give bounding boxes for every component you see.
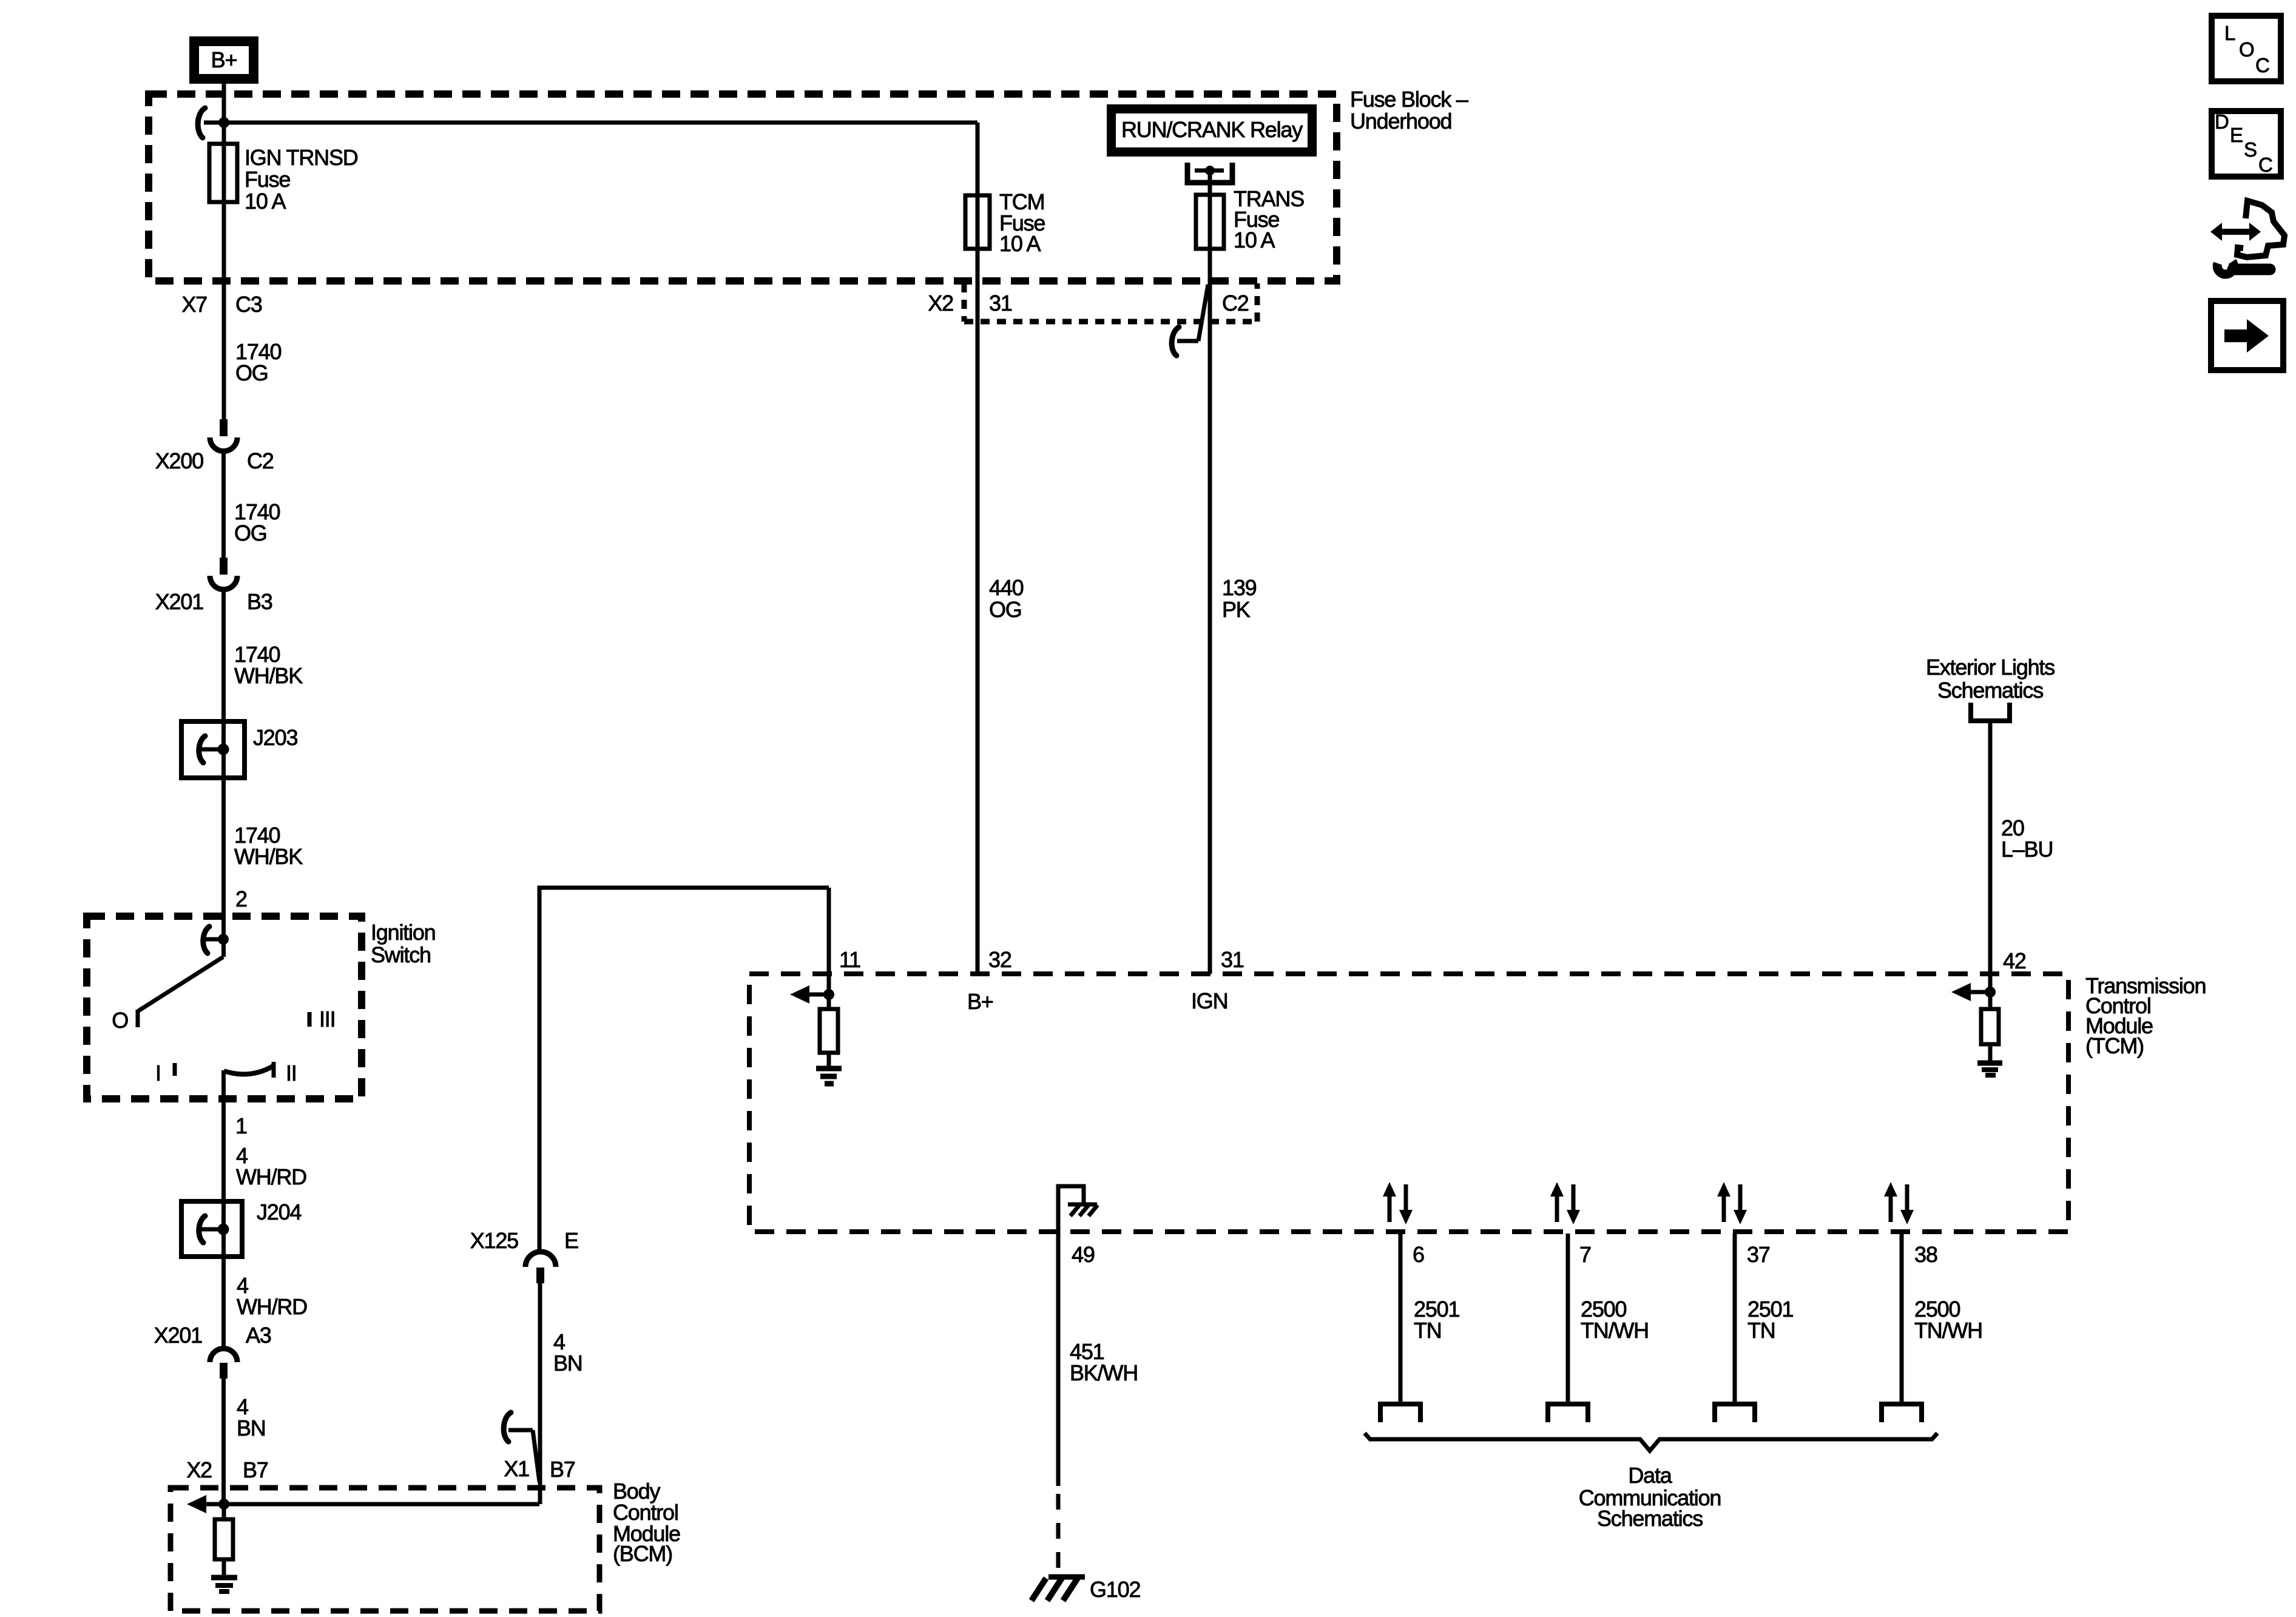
- fuse TCM 10A: [965, 189, 1045, 256]
- svg-text:31: 31: [1221, 947, 1244, 972]
- svg-text:X2: X2: [186, 1457, 212, 1482]
- label X2 B7: [186, 1457, 268, 1482]
- TCM internal load pin 11: [820, 994, 838, 1067]
- fuse TRANS 10A: [1196, 186, 1304, 252]
- svg-text:TN: TN: [1747, 1318, 1775, 1343]
- svg-text:42: 42: [2003, 948, 2026, 973]
- svg-text:X200: X200: [155, 448, 203, 473]
- svg-text:Fuse Block –: Fuse Block –: [1350, 87, 1468, 112]
- junction node at B+ bus: [218, 117, 229, 128]
- svg-text:RUN/CRANK Relay: RUN/CRANK Relay: [1121, 117, 1303, 142]
- junction node pin 42: [1985, 987, 1996, 998]
- svg-text:O: O: [112, 1008, 128, 1033]
- wire 4 BN to BCM: [221, 1379, 226, 1504]
- wire corner to TCM fuse: [976, 123, 980, 195]
- svg-text:C3: C3: [235, 292, 262, 317]
- svg-text:32: 32: [988, 947, 1011, 972]
- svg-text:(BCM): (BCM): [613, 1541, 672, 1566]
- splice J204: [181, 1200, 301, 1257]
- svg-text:49: 49: [1072, 1242, 1095, 1267]
- TCM pin 49 internal ground hook: [1058, 1186, 1098, 1232]
- svg-text:J203: J203: [253, 725, 297, 750]
- svg-text:10 A: 10 A: [1234, 228, 1275, 252]
- svg-text:OG: OG: [235, 360, 268, 385]
- svg-text:37: 37: [1747, 1242, 1770, 1267]
- svg-text:OG: OG: [989, 597, 1022, 622]
- wire 1740 OG (second): [221, 451, 226, 558]
- terminal staple pin 7: [1548, 1404, 1588, 1422]
- switch output wire pin 1: [221, 1070, 226, 1201]
- wire 4 WH/RD lower: [221, 1257, 226, 1348]
- wire label 139 PK: [1222, 575, 1257, 622]
- svg-text:WH/BK: WH/BK: [234, 663, 303, 688]
- svg-text:IGN TRNSD: IGN TRNSD: [245, 145, 358, 170]
- connector pass-through box X2/31/C2 dotted: [964, 283, 1257, 322]
- contact O: [112, 1008, 138, 1033]
- svg-text:C2: C2: [247, 448, 274, 473]
- wire B+ to junction: [222, 84, 226, 144]
- switch input terminal: [203, 916, 229, 957]
- battery feed symbol B+: [189, 36, 258, 84]
- svg-text:X7: X7: [181, 292, 207, 317]
- svg-text:6: 6: [1413, 1242, 1424, 1267]
- label X1 B7: [504, 1456, 575, 1482]
- svg-text:Fuse: Fuse: [245, 167, 290, 192]
- splice J203: [181, 721, 297, 778]
- pin 6 arrows: [1383, 1182, 1413, 1224]
- pin 7 arrows: [1550, 1182, 1580, 1224]
- wire 1740 WH/BK: [221, 590, 226, 721]
- connector X125 E: [470, 1228, 578, 1283]
- svg-text:A3: A3: [246, 1323, 271, 1348]
- svg-text:139: 139: [1222, 575, 1257, 600]
- label Transmission Control Module (TCM): [2085, 973, 2206, 1058]
- svg-text:Data: Data: [1628, 1463, 1672, 1488]
- ground in BCM: [211, 1578, 237, 1592]
- svg-text:PK: PK: [1222, 597, 1251, 622]
- svg-text:X125: X125: [470, 1228, 518, 1253]
- icon hand with wrench: [2210, 201, 2284, 274]
- svg-text:11: 11: [839, 947, 860, 972]
- contact II with travel arc: [224, 1061, 297, 1085]
- svg-text:10 A: 10 A: [245, 189, 286, 214]
- terminal X1 B7 crescent tail: [504, 1413, 539, 1482]
- TCM data pins 6 7 37 38: [1380, 1182, 1982, 1422]
- svg-text:X201: X201: [154, 1323, 202, 1348]
- label X2 31: [928, 291, 1011, 316]
- junction node pin 11: [823, 989, 834, 1000]
- BCM internal load: [215, 1504, 233, 1575]
- svg-text:38: 38: [1914, 1242, 1937, 1267]
- Exterior Lights Schematics off-page reference: [1926, 655, 2055, 721]
- svg-text:X201: X201: [155, 589, 203, 614]
- svg-text:Switch: Switch: [371, 942, 431, 967]
- svg-text:BN: BN: [553, 1351, 582, 1376]
- svg-text:B+: B+: [967, 989, 993, 1014]
- svg-text:Ignition: Ignition: [371, 920, 436, 945]
- svg-text:C: C: [2255, 54, 2269, 76]
- connector X200 C2: [155, 419, 274, 473]
- svg-text:31: 31: [989, 291, 1012, 316]
- pin 38 arrows: [1884, 1182, 1914, 1224]
- svg-text:Schematics: Schematics: [1597, 1506, 1703, 1531]
- svg-text:J204: J204: [257, 1200, 301, 1224]
- svg-text:S: S: [2244, 138, 2257, 161]
- icon arrow box: [2211, 301, 2283, 370]
- svg-text:Underhood: Underhood: [1350, 109, 1451, 133]
- switch wiper arm: [138, 957, 223, 1011]
- icon DESC box: [2212, 110, 2281, 177]
- svg-text:X1: X1: [504, 1456, 529, 1481]
- svg-text:D: D: [2215, 110, 2229, 133]
- ground pin 11 load: [816, 1068, 842, 1084]
- relay RUN/CRANK Relay: [1107, 104, 1317, 157]
- wire 440 OG to TCM pin 32: [976, 249, 980, 974]
- svg-text:B7: B7: [243, 1457, 268, 1482]
- terminal crescent at B+ entry: [198, 108, 205, 138]
- svg-text:B+: B+: [211, 47, 237, 72]
- wire label 4 WH/RD: [236, 1143, 306, 1189]
- svg-text:Exterior Lights: Exterior Lights: [1926, 655, 2055, 680]
- BCM internal arrow: [187, 1495, 206, 1513]
- connector X201 A3: [154, 1323, 271, 1379]
- svg-text:(TCM): (TCM): [2085, 1033, 2144, 1058]
- svg-text:I: I: [155, 1061, 161, 1085]
- svg-text:2: 2: [235, 886, 247, 911]
- svg-text:WH/RD: WH/RD: [236, 1164, 306, 1189]
- terminal staple pin 6: [1380, 1404, 1420, 1422]
- ground pin 42 load: [1977, 1063, 2002, 1075]
- pin 37 arrows: [1717, 1182, 1747, 1224]
- TCM internal arrow pin 11: [790, 985, 809, 1004]
- svg-text:II: II: [286, 1061, 297, 1085]
- svg-text:WH/RD: WH/RD: [237, 1294, 307, 1319]
- svg-text:OG: OG: [234, 521, 267, 545]
- svg-text:C2: C2: [1222, 291, 1249, 316]
- wire 451 BK/WH: [1056, 1232, 1061, 1486]
- svg-text:B3: B3: [247, 589, 272, 614]
- Fuse Block - Underhood dashed box: [149, 94, 1337, 281]
- wire 4 BN right: [538, 1283, 542, 1504]
- contact I: [155, 1061, 175, 1085]
- svg-text:IGN: IGN: [1191, 988, 1227, 1013]
- contact III: [309, 1007, 335, 1031]
- svg-text:L: L: [2224, 22, 2235, 44]
- label X7 C3: [181, 292, 262, 317]
- Transmission Control Module dashed box: [749, 974, 2068, 1232]
- Ignition Switch dashed box: [87, 916, 362, 1099]
- BCM internal bus wire: [206, 1502, 539, 1507]
- connector X201 B3: [155, 558, 272, 614]
- Body Control Module dashed box: [171, 1488, 599, 1611]
- wire bus to TCM fuse: [224, 121, 977, 125]
- label Fuse Block - Underhood: [1350, 87, 1468, 133]
- wire label 440 OG: [989, 575, 1024, 622]
- terminal staple pin 37: [1715, 1404, 1755, 1422]
- svg-text:TN/WH: TN/WH: [1914, 1318, 1982, 1343]
- svg-text:G102: G102: [1090, 1577, 1140, 1602]
- svg-text:10 A: 10 A: [999, 231, 1041, 256]
- svg-text:440: 440: [989, 575, 1024, 600]
- svg-text:TN: TN: [1414, 1318, 1442, 1343]
- wire TCM pin 11 to BCM: horizontal run: [539, 886, 829, 890]
- svg-text:L–BU: L–BU: [2001, 837, 2053, 862]
- wire relay to TRANS fuse: [1208, 170, 1212, 195]
- svg-text:C: C: [2258, 154, 2272, 176]
- brace Data Communication Schematics: [1365, 1433, 1937, 1451]
- svg-text:X2: X2: [928, 291, 953, 316]
- label Body Control Module (BCM): [613, 1479, 680, 1566]
- svg-text:E: E: [564, 1228, 578, 1253]
- svg-text:O: O: [2239, 38, 2254, 61]
- svg-text:WH/BK: WH/BK: [234, 844, 303, 869]
- terminal C2 crescent tail: [1172, 285, 1208, 356]
- svg-text:B7: B7: [550, 1457, 575, 1482]
- junction node in BCM: [218, 1499, 229, 1510]
- terminal staple pin 38: [1882, 1404, 1922, 1422]
- icon LOC box: [2212, 16, 2281, 81]
- svg-text:BN: BN: [237, 1416, 266, 1440]
- ground G102 chassis: [1032, 1577, 1085, 1601]
- TCM internal load pin 42: [1981, 992, 1999, 1062]
- svg-text:E: E: [2230, 124, 2243, 146]
- wire 139 PK to TCM pin 31: [1208, 249, 1212, 974]
- wire to G102 dashed: [1056, 1494, 1061, 1578]
- svg-text:BK/WH: BK/WH: [1070, 1360, 1138, 1385]
- wire 20 L-BU to TCM pin 42: [1988, 721, 1993, 992]
- TCM internal arrow pin 42: [1951, 983, 1971, 1001]
- svg-text:7: 7: [1579, 1242, 1591, 1267]
- wire label 1740 OG (first): [235, 339, 281, 385]
- wire fuse to X7/C3: [222, 202, 226, 419]
- fuse IGN TRNSD 10A: [209, 144, 358, 214]
- relay output contact bracket: [1187, 163, 1232, 183]
- svg-text:1: 1: [235, 1113, 247, 1138]
- wire 1740 WH/BK lower: [221, 778, 226, 916]
- svg-text:Schematics: Schematics: [1937, 678, 2043, 703]
- svg-text:TN/WH: TN/WH: [1581, 1318, 1649, 1343]
- svg-text:III: III: [319, 1007, 335, 1031]
